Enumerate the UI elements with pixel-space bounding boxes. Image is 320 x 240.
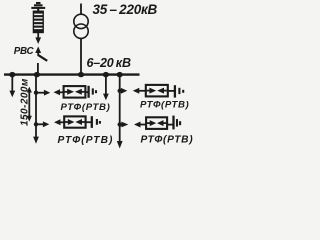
ground (L1) — [87, 86, 89, 98]
wire: branch 1 with arrow — [36, 92, 45, 94]
tubular arrester L2 body — [64, 116, 85, 127]
svg-text:РТФ(РТВ): РТФ(РТВ) — [141, 135, 194, 146]
wire: L1 to ground — [85, 91, 88, 93]
wire: R2 branch with arrow — [120, 124, 122, 126]
surge arrester PBC valve element — [33, 11, 43, 32]
spark gap of PBC: up arrow — [35, 46, 41, 53]
ground (top of PBC arrester) — [31, 3, 45, 12]
wire: branch 2 with arrow — [36, 123, 44, 125]
svg-text:РТФ(РТВ): РТФ(РТВ) — [61, 102, 111, 113]
transformer T1 winding 2 — [74, 24, 88, 38]
node: feeder stub 1 bus junction — [9, 72, 15, 77]
busbar 6-20 kV — [4, 73, 140, 75]
node: R1 branch junction — [118, 89, 122, 93]
tubular arrester R1 body — [146, 85, 168, 97]
wire: PBC column to bus — [37, 63, 39, 75]
spark gap arrow of arrester R2 — [134, 122, 141, 128]
feeder stub 2 with arrow — [105, 75, 107, 94]
spark gap arrow of arrester L1 — [54, 89, 61, 95]
spark gap arrow of arrester R1 — [133, 88, 140, 94]
node: branch 2 junction on left feeder — [34, 122, 38, 126]
svg-text:150-200м: 150-200м — [20, 78, 31, 126]
transformer T1 winding 1 — [74, 14, 88, 28]
node: branch 1 junction on left feeder — [34, 91, 38, 95]
ground (R1) — [174, 85, 176, 97]
arrester R1 internal gap arrows — [147, 90, 150, 92]
wire: transformer LV lead to bus — [80, 38, 82, 74]
arrester L2 internal gap arrows — [65, 121, 68, 123]
ground (R2) — [172, 116, 174, 130]
svg-text:35 – 220кВ: 35 – 220кВ — [93, 2, 158, 17]
wire: transformer HV lead — [80, 4, 82, 15]
wire: L2 to ground — [86, 121, 92, 123]
wire: R2 to ground — [167, 124, 173, 126]
dimension arrow 150-200 m — [28, 91, 30, 117]
node: transformer bus junction — [78, 72, 84, 77]
tubular arrester R2 body — [146, 117, 167, 129]
left feeder line — [35, 75, 37, 137]
node: feeder stub 2 bus junction — [103, 72, 109, 77]
spark gap arrow of arrester L2 — [54, 119, 61, 125]
ground (L2) — [91, 116, 93, 128]
wire: R1 to ground — [168, 90, 175, 92]
svg-text:РТФ(РТВ): РТФ(РТВ) — [58, 135, 114, 146]
node: right feeder bus junction — [117, 72, 123, 77]
tubular arrester L1 body — [64, 86, 86, 98]
node: R2 branch junction — [118, 122, 122, 126]
svg-text:6–20 кВ: 6–20 кВ — [87, 56, 131, 70]
wire: R1 branch with arrow — [120, 90, 122, 92]
disconnector blade — [38, 55, 47, 61]
arrester L1 internal gap arrows — [64, 91, 67, 93]
feeder stub 1 with arrow — [11, 75, 13, 91]
spark gap of PBC: down arrow — [37, 33, 39, 38]
svg-text:РВС: РВС — [14, 46, 35, 57]
arrester R2 internal gap arrows — [147, 122, 150, 124]
node: PBC / left feeder bus junction — [34, 72, 40, 77]
right feeder line — [119, 75, 121, 142]
svg-text:РТФ(РТВ): РТФ(РТВ) — [140, 100, 189, 111]
